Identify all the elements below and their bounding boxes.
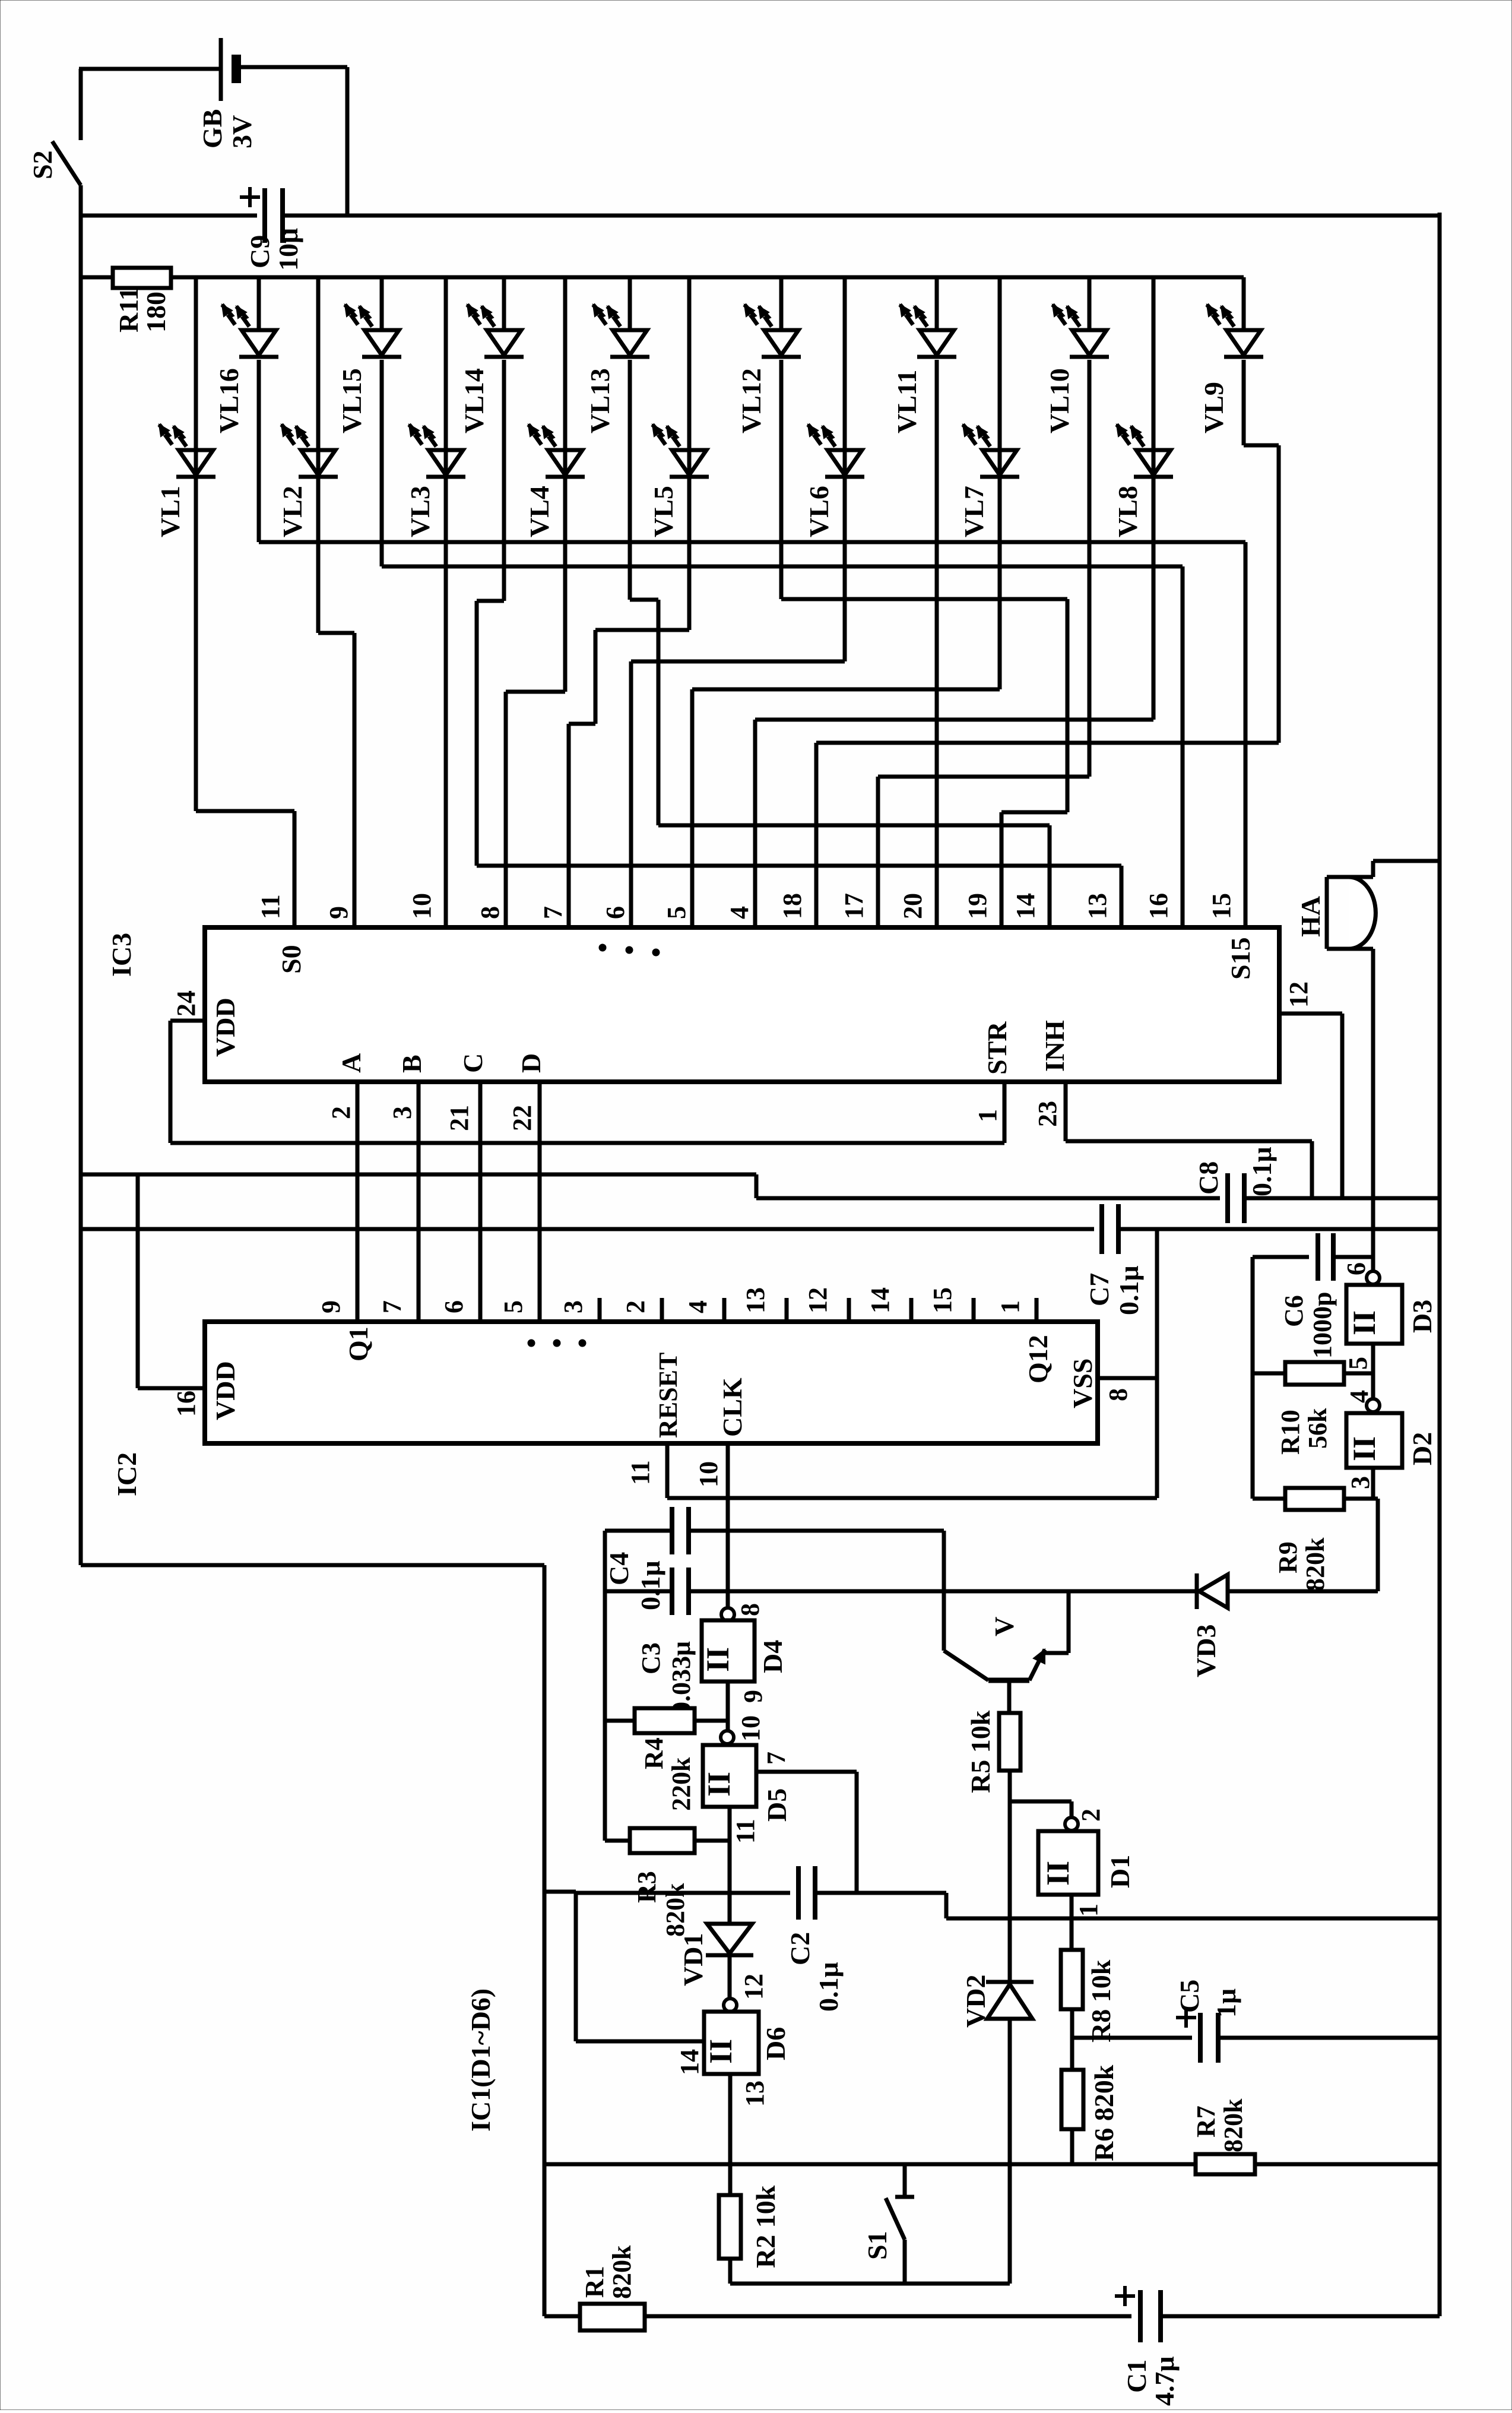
svg-text:4.7μ: 4.7μ [1149, 2356, 1180, 2406]
wire IC2 pin16 VDD [136, 1174, 140, 1388]
wire VL6 to pin 6 [843, 360, 847, 661]
svg-text:VL11: VL11 [892, 370, 922, 433]
svg-text:10: 10 [736, 1715, 765, 1741]
inverter D6 [675, 1999, 791, 2107]
svg-text:1: 1 [973, 1109, 1002, 1122]
inverter D5 [701, 1731, 792, 1844]
svg-text:B: B [397, 1054, 427, 1073]
svg-text:15: 15 [928, 1287, 957, 1313]
wire LED anode rail [81, 275, 113, 280]
svg-text:D2: D2 [1407, 1432, 1437, 1465]
svg-text:VL5: VL5 [648, 486, 679, 537]
svg-text:11: 11 [626, 1460, 655, 1485]
svg-text:5: 5 [1343, 1357, 1372, 1370]
wire D5 input [728, 1807, 732, 1924]
svg-text:820k: 820k [1301, 1537, 1330, 1591]
svg-text:7: 7 [538, 906, 568, 919]
resistor R3 820k [630, 1828, 695, 1853]
diode VD3 [1195, 1573, 1199, 1609]
IC3 CD4514 box [205, 927, 1279, 1082]
svg-text:R4: R4 [639, 1737, 668, 1769]
svg-text:1: 1 [1074, 1904, 1103, 1917]
wire VL3 to pin 10 [444, 360, 448, 927]
wire D3 input to R10 and D2 [1371, 1344, 1375, 1399]
svg-text:8: 8 [736, 1603, 765, 1616]
svg-text:220k: 220k [667, 1757, 696, 1811]
IC3 pin 1 STR wire [170, 1141, 1004, 1145]
svg-text:17: 17 [839, 893, 868, 919]
wire VL8 to pin 4 [1152, 360, 1156, 720]
resistor R4 220k [635, 1708, 695, 1733]
LED VL3 [405, 277, 465, 537]
svg-text:S0: S0 [276, 945, 306, 974]
svg-text:VDD: VDD [210, 997, 240, 1057]
wire GND line through C2 [576, 1891, 790, 1895]
svg-text:VL16: VL16 [214, 368, 244, 433]
LED VL7 [959, 277, 1019, 537]
capacitor C5 1u + [1072, 2036, 1192, 2040]
switch S2 [79, 69, 83, 140]
svg-text:16: 16 [172, 1391, 201, 1417]
wire VL15 to pin 16 [380, 360, 384, 566]
svg-text:13: 13 [740, 2080, 769, 2107]
wire GND top [283, 214, 1440, 218]
wire VL13 to pin 14 [628, 360, 632, 600]
battery GB 3V [219, 38, 223, 101]
wire VDD to D6 pin14 [544, 1890, 576, 1894]
svg-text:D: D [516, 1053, 546, 1073]
wire D5 pin7 GND [756, 1770, 857, 1774]
svg-text:9: 9 [316, 1300, 345, 1313]
wire bottom VDD rail [544, 2314, 580, 2319]
resistor R9 820k [1285, 1488, 1344, 1510]
resistor R1 820k [580, 2304, 645, 2330]
svg-text:C1: C1 [1121, 2360, 1152, 2393]
svg-text:D3: D3 [1407, 1300, 1437, 1333]
svg-text:10: 10 [694, 1461, 723, 1487]
svg-text:VL14: VL14 [459, 368, 489, 433]
svg-text:R6 820k: R6 820k [1089, 2064, 1119, 2161]
capacitor C9 10u [262, 188, 267, 243]
resistor R6 820k [1061, 2070, 1083, 2129]
svg-text:7: 7 [378, 1300, 407, 1313]
wire C1 to GND corner [1161, 2314, 1440, 2319]
svg-text:D6: D6 [760, 2027, 791, 2060]
capacitor C1 4.7u + [1138, 2290, 1143, 2342]
svg-text:3: 3 [388, 1106, 417, 1119]
svg-text:820k: 820k [1219, 2098, 1248, 2152]
wire VL2 to pin 9 [316, 360, 321, 633]
svg-text:10μ: 10μ [273, 228, 303, 271]
LED VL16 [214, 277, 278, 433]
svg-text:R1: R1 [580, 2266, 609, 2298]
wire GND from battery [81, 214, 257, 218]
IC3 pin 12 VSS wire [1279, 1012, 1342, 1016]
wire VD3 to D2 input [1228, 1589, 1378, 1594]
LED VL2 [277, 277, 338, 537]
LED VL10 [1044, 277, 1109, 433]
LED VL4 [524, 277, 585, 537]
IC3 pins 2 3 21 22 wires to IC2 [356, 1082, 360, 1322]
svg-text:II: II [703, 2039, 738, 2064]
wire D4 to D5 [726, 1681, 730, 1731]
wire VD2 to S1 loop [1008, 2019, 1012, 2284]
svg-text:R3: R3 [632, 1871, 661, 1903]
svg-text:R10: R10 [1276, 1410, 1305, 1455]
svg-text:820k: 820k [607, 2245, 636, 2299]
wire C2 right to GND step [816, 1891, 946, 1895]
LED VL15 [337, 277, 401, 433]
wire VL16 to pin 15 [257, 360, 261, 542]
wire D2 input to R9 [1371, 1468, 1375, 1499]
svg-text:R7: R7 [1191, 2105, 1221, 2137]
svg-text:V: V [989, 1617, 1019, 1636]
svg-text:20: 20 [898, 893, 927, 919]
wire IC2 VSS drop [1155, 1229, 1159, 1498]
IC2 CD4040 box [205, 1322, 1098, 1443]
svg-text:C2: C2 [785, 1932, 815, 1965]
svg-text:C4: C4 [604, 1552, 634, 1585]
svg-text:7: 7 [762, 1752, 791, 1765]
svg-text:II: II [1346, 1310, 1382, 1335]
svg-text:4: 4 [1345, 1390, 1374, 1403]
resistor R11 180 [113, 268, 171, 288]
svg-text:R8 10k: R8 10k [1086, 1959, 1116, 2042]
capacitor C4 0.1u [670, 1507, 674, 1554]
svg-text:VL13: VL13 [585, 368, 615, 433]
wire collector feed [605, 1529, 672, 1533]
svg-text:S15: S15 [1225, 937, 1256, 980]
wire VL9 to pin 18 [1242, 360, 1246, 445]
svg-text:VL2: VL2 [277, 486, 308, 537]
svg-text:0.1μ: 0.1μ [635, 1560, 665, 1610]
svg-text:4: 4 [683, 1300, 712, 1313]
svg-text:0.1μ: 0.1μ [813, 1962, 844, 2012]
svg-text:CLK: CLK [717, 1377, 747, 1437]
svg-text:3V: 3V [227, 115, 257, 148]
svg-text:13: 13 [1083, 893, 1112, 919]
svg-text:VL9: VL9 [1199, 382, 1229, 433]
svg-text:S2: S2 [27, 150, 58, 179]
wire oscillator left rail [603, 1531, 607, 1841]
resistor R5 10k [999, 1713, 1020, 1771]
svg-text:IC1(D1~D6): IC1(D1~D6) [465, 1988, 496, 2132]
svg-text:12: 12 [1284, 981, 1313, 1008]
svg-text:HA: HA [1295, 896, 1326, 937]
buzzer HA [1295, 861, 1440, 949]
svg-text:VDD: VDD [210, 1361, 240, 1420]
svg-text:14: 14 [866, 1287, 895, 1313]
svg-text:0.1μ: 0.1μ [1247, 1147, 1277, 1196]
svg-text:14: 14 [1011, 893, 1040, 919]
transistor V [944, 1531, 1069, 1680]
svg-text:IC2: IC2 [112, 1452, 142, 1496]
LED VL5 [648, 277, 709, 537]
svg-text:VSS: VSS [1067, 1358, 1098, 1408]
LED VL1 [155, 277, 215, 537]
svg-text:VD1: VD1 [678, 1933, 708, 1986]
wire GND bottom line [946, 1917, 1440, 1921]
wire R5 to D1 and VD2 [1008, 1771, 1012, 1982]
svg-text:VL4: VL4 [524, 486, 554, 537]
wire battery top loop [79, 67, 221, 71]
svg-text:R5 10k: R5 10k [965, 1710, 996, 1793]
svg-text:VL7: VL7 [959, 486, 989, 537]
wire R1 to C1 [645, 2314, 1131, 2319]
svg-text:23: 23 [1033, 1101, 1062, 1127]
IC3 pin 23 INH wire [1064, 1082, 1068, 1141]
svg-text:C3: C3 [636, 1642, 665, 1674]
wire VL12 to pin 19 [779, 360, 784, 599]
svg-text:D5: D5 [762, 1788, 792, 1822]
svg-text:10: 10 [407, 893, 436, 919]
inverter D3 [1342, 1262, 1437, 1344]
wire C5 to GND rail [1218, 2036, 1440, 2040]
svg-text:11: 11 [256, 894, 285, 919]
svg-text:9: 9 [738, 1690, 768, 1703]
LED VL11 [892, 277, 956, 433]
capacitor C3 0.033u [670, 1567, 674, 1615]
capacitor C2 0.1u [796, 1866, 801, 1920]
wire R6 to rail [1070, 2129, 1074, 2164]
svg-text:R2 10k: R2 10k [750, 2185, 781, 2268]
wire VDD to C7 [81, 1227, 1094, 1231]
capacitor C8 0.1u [1225, 1173, 1230, 1223]
svg-text:II: II [700, 1647, 736, 1672]
svg-text:A: A [336, 1053, 366, 1073]
svg-text:24: 24 [172, 990, 201, 1016]
wire VD1 to D6 output [728, 1955, 732, 1999]
svg-text:3: 3 [1346, 1476, 1375, 1489]
resistor R8 10k [1061, 1950, 1083, 2009]
IC2 pin 8 VSS stub [1098, 1376, 1157, 1380]
svg-text:19: 19 [963, 893, 992, 919]
LED VL14 [459, 277, 524, 433]
diode VD1 [707, 1924, 752, 1953]
svg-text:GB: GB [197, 109, 227, 148]
wire VL14 to pin 13 [502, 360, 506, 601]
IC2 RESET pin 11 [665, 1443, 670, 1498]
LED VL13 [585, 277, 649, 433]
svg-text:8: 8 [1104, 1388, 1133, 1401]
capacitor C7 0.1u [1099, 1204, 1104, 1254]
wire D1 input [1070, 1895, 1074, 1950]
svg-text:C: C [458, 1053, 488, 1073]
wire C3 line to emitter and VD3 [605, 1589, 672, 1594]
svg-text:180: 180 [141, 292, 171, 332]
svg-text:VD2: VD2 [961, 1975, 991, 2028]
svg-text:C9: C9 [245, 235, 275, 268]
svg-text:12: 12 [803, 1287, 832, 1313]
oscillator D2 D3 left rail [1251, 1257, 1255, 1499]
wire VL10 to pin 17 [1088, 360, 1092, 777]
svg-text:22: 22 [508, 1105, 537, 1131]
svg-text:S1: S1 [862, 2231, 892, 2260]
svg-text:56k: 56k [1303, 1408, 1332, 1449]
wire VDD to IC1 section [81, 1563, 544, 1567]
IC2 ellipsis dots [528, 1339, 535, 1347]
wire GND right rail [1438, 213, 1442, 2316]
inverter D1 [1038, 1809, 1135, 1917]
wire VL4 to pin 8 [563, 360, 568, 692]
svg-text:2: 2 [327, 1106, 356, 1119]
LED VL6 [804, 277, 864, 537]
svg-text:VL15: VL15 [337, 368, 367, 433]
svg-text:1μ: 1μ [1211, 1988, 1241, 2018]
svg-text:D4: D4 [757, 1640, 788, 1673]
wire base to R5 [1007, 1680, 1012, 1713]
switch S1 [862, 2164, 914, 2284]
svg-text:8: 8 [476, 906, 505, 919]
resistor R2 10k [719, 2195, 741, 2259]
wire VL5 to pin 7 [687, 360, 692, 630]
svg-text:5: 5 [662, 906, 691, 919]
svg-text:C5: C5 [1174, 1980, 1204, 2013]
LED VL8 [1112, 277, 1173, 537]
svg-text:9: 9 [324, 906, 353, 919]
svg-text:C8: C8 [1193, 1161, 1223, 1195]
wire IC1 bias rail [544, 2162, 1196, 2167]
svg-text:VL6: VL6 [804, 486, 834, 537]
svg-text:2: 2 [621, 1300, 650, 1313]
wire C8 to GND rail [1244, 1196, 1440, 1201]
svg-text:II: II [1040, 1861, 1076, 1886]
svg-text:6: 6 [601, 906, 630, 919]
svg-text:II: II [701, 1772, 737, 1797]
svg-text:11: 11 [731, 1819, 760, 1844]
wire VL11 to pin 20 [935, 360, 939, 927]
svg-text:0.1μ: 0.1μ [1114, 1265, 1144, 1315]
svg-text:VL12: VL12 [736, 368, 766, 433]
svg-text:14: 14 [675, 2049, 704, 2075]
wire VDD step to C8 [755, 1174, 759, 1198]
svg-text:RESET: RESET [654, 1353, 683, 1438]
wire VL7 to pin 5 [998, 360, 1002, 689]
svg-text:2: 2 [1076, 1809, 1105, 1822]
svg-text:VL8: VL8 [1112, 486, 1143, 537]
svg-text:21: 21 [445, 1105, 474, 1131]
wire buzzer to D3 output [1371, 949, 1375, 1271]
svg-text:6: 6 [1342, 1262, 1371, 1275]
svg-text:II: II [1346, 1436, 1382, 1461]
resistor R10 56k [1285, 1362, 1344, 1385]
svg-text:VL10: VL10 [1044, 368, 1074, 433]
svg-text:1: 1 [996, 1300, 1025, 1313]
capacitor C6 1000p [1253, 1255, 1309, 1259]
svg-text:Q1: Q1 [343, 1326, 373, 1361]
svg-text:VL1: VL1 [155, 486, 185, 537]
IC2 top pin stubs [598, 1298, 602, 1322]
wire RESET VSS rail [667, 1496, 1157, 1500]
svg-text:INH: INH [1039, 1020, 1070, 1072]
svg-text:1000p: 1000p [1308, 1292, 1337, 1358]
svg-text:18: 18 [778, 893, 807, 919]
wire VL1 to pin 11 [194, 360, 198, 811]
svg-text:R9: R9 [1273, 1541, 1302, 1573]
wire rail right of R7 [1255, 2162, 1440, 2167]
wire VDD left rail [79, 216, 83, 1565]
svg-text:15: 15 [1207, 893, 1236, 919]
wire emitter to C3 line [1067, 1591, 1071, 1653]
IC3 ellipsis dots [599, 944, 606, 951]
IC3 pin 24 VDD wire [170, 1019, 205, 1023]
svg-text:0.033μ: 0.033μ [667, 1641, 696, 1715]
wire R2 to S1 loop [728, 2259, 733, 2284]
svg-text:VL3: VL3 [405, 486, 435, 537]
svg-text:3: 3 [559, 1300, 588, 1313]
wire R8 to C5 junction [1070, 2009, 1074, 2070]
LED VL9 [1199, 277, 1263, 433]
svg-text:D1: D1 [1105, 1855, 1135, 1888]
LED VL12 [736, 277, 801, 433]
svg-text:R11: R11 [113, 287, 144, 332]
svg-text:5: 5 [499, 1300, 528, 1313]
wire C7 to GND rail [1118, 1227, 1440, 1231]
svg-text:13: 13 [741, 1287, 770, 1313]
svg-text:12: 12 [739, 1974, 768, 2000]
svg-text:4: 4 [725, 906, 754, 919]
svg-text:C6: C6 [1279, 1295, 1308, 1327]
IC2 CLK pin 10 [726, 1443, 730, 1608]
svg-text:16: 16 [1144, 893, 1173, 919]
svg-text:STR: STR [982, 1021, 1012, 1075]
wire VDD rail under IC3 [81, 1173, 756, 1177]
inverter D2 [1345, 1390, 1437, 1468]
svg-text:IC3: IC3 [106, 933, 137, 977]
svg-text:Q12: Q12 [1023, 1335, 1053, 1383]
svg-text:C7: C7 [1084, 1273, 1114, 1306]
resistor R7 820k [1196, 2154, 1255, 2174]
diode VD2 [986, 1980, 1034, 1984]
svg-text:VD3: VD3 [1191, 1624, 1221, 1677]
wire D6 input to R2 [728, 2074, 733, 2195]
inverter D4 [700, 1603, 788, 1681]
svg-text:6: 6 [439, 1300, 468, 1313]
